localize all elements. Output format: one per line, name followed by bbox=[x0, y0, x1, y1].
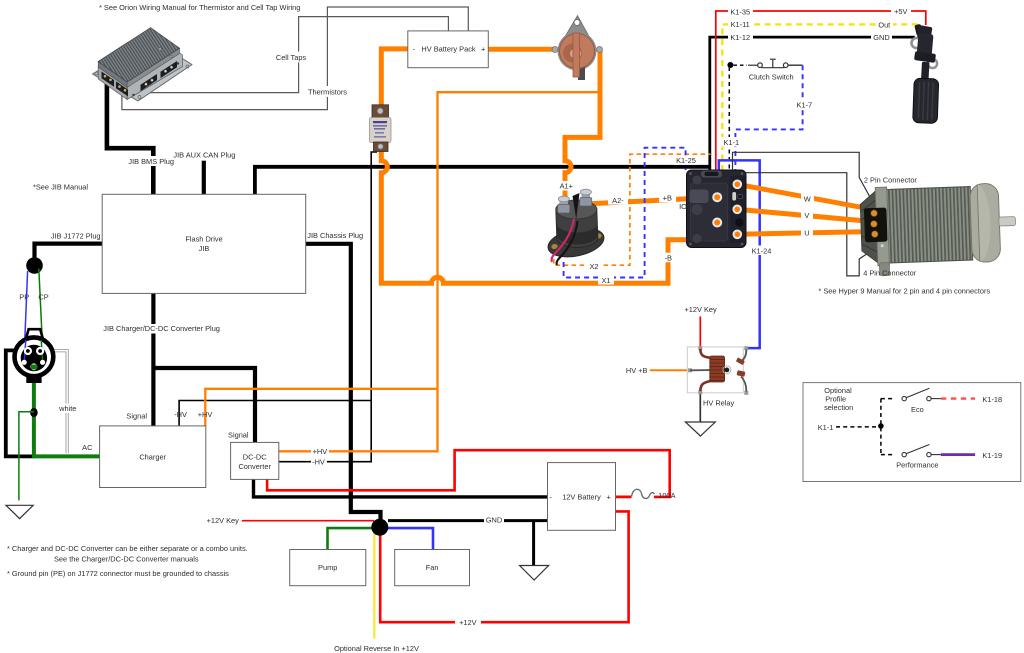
svg-text:GND: GND bbox=[873, 33, 889, 42]
svg-text:JIB: JIB bbox=[199, 244, 210, 253]
switch Eco bbox=[906, 388, 929, 397]
svg-text:JIB Charger/DC-DC Converter Pl: JIB Charger/DC-DC Converter Plug bbox=[103, 324, 220, 333]
svg-text:AC: AC bbox=[82, 443, 93, 452]
wire charger signal from JIB charger plug bbox=[151, 293, 155, 426]
flange bbox=[93, 39, 193, 102]
wire AC neutral (white) from J1772 N pin bbox=[45, 351, 67, 453]
svg-text:+: + bbox=[607, 493, 611, 502]
terminal -B bbox=[713, 219, 721, 227]
label JIB BMS Plug bbox=[129, 156, 174, 166]
wire motor phase W (thick orange) bbox=[737, 184, 875, 210]
terminal A2 bbox=[582, 192, 591, 200]
svg-text:-HV: -HV bbox=[312, 458, 325, 467]
label W bbox=[801, 194, 814, 204]
Pump box bbox=[290, 550, 366, 586]
heatsink fin sides (right) bbox=[127, 48, 179, 87]
svg-text:HV Battery Pack: HV Battery Pack bbox=[421, 45, 476, 54]
wire PP (blue) bbox=[24, 271, 27, 352]
svg-text:K1-1: K1-1 bbox=[723, 138, 739, 147]
svg-text:100A: 100A bbox=[658, 491, 675, 500]
wire DC-DC +HV riser (thin orange) with label gap bbox=[279, 92, 600, 451]
label +5V bbox=[891, 6, 911, 16]
svg-text:HV Relay: HV Relay bbox=[703, 399, 735, 408]
relay coil bbox=[710, 356, 725, 382]
svg-text:-HV: -HV bbox=[174, 410, 187, 419]
label JIB AUX CAN Plug bbox=[175, 150, 234, 160]
svg-text:Signal: Signal bbox=[228, 430, 249, 439]
svg-text:K1-35: K1-35 bbox=[730, 7, 750, 16]
svg-text:Optional: Optional bbox=[824, 386, 852, 395]
wire K1-7 blue dashed bbox=[735, 65, 802, 171]
wire HV battery minus to fuse to -B of controller (thick orange) bbox=[381, 49, 717, 283]
svg-text:selection: selection bbox=[824, 403, 853, 412]
label Out bbox=[877, 20, 893, 30]
HV relay internals bbox=[688, 346, 748, 395]
svg-text:K1-25: K1-25 bbox=[676, 156, 696, 165]
svg-text:*See JIB Manual: *See JIB Manual bbox=[33, 183, 88, 192]
wire coil sensor to contactor A1+ (thick orange) bbox=[565, 51, 600, 199]
wire HV +B orange to relay common bbox=[650, 369, 690, 371]
svg-text:+B: +B bbox=[663, 193, 672, 202]
svg-text:JIB J1772 Plug: JIB J1772 Plug bbox=[51, 232, 101, 241]
svg-text:2 Pin Connector: 2 Pin Connector bbox=[864, 176, 918, 185]
svg-text:Signal: Signal bbox=[126, 412, 147, 421]
clutch switch symbol bbox=[748, 64, 758, 66]
node J1772 cable junction dot bbox=[26, 257, 43, 274]
wire battery plus to fuse 100A red bbox=[616, 495, 632, 498]
label white bbox=[58, 404, 78, 414]
fuse 100A squiggle bbox=[632, 489, 655, 498]
svg-text:K1-1: K1-1 bbox=[818, 423, 834, 432]
wire DC-DC signal branch bbox=[153, 368, 255, 442]
label A1+ bbox=[557, 181, 576, 191]
wire JIB chassis plug to ground junction bbox=[306, 244, 381, 523]
label U bbox=[801, 228, 813, 238]
svg-text:* See Orion Wiring Manual for: * See Orion Wiring Manual for Thermistor… bbox=[99, 3, 300, 12]
svg-text:JIB AUX CAN Plug: JIB AUX CAN Plug bbox=[173, 151, 235, 160]
wire +12V Key red to junction bbox=[242, 520, 374, 522]
controller U2 (motor controller) bbox=[687, 170, 747, 248]
svg-text:+: + bbox=[481, 45, 485, 54]
svg-text:A1+: A1+ bbox=[560, 182, 573, 191]
wire HV battery plus to coil sensor (thick orange) bbox=[488, 47, 554, 52]
Charger box bbox=[100, 426, 206, 488]
svg-text:PP: PP bbox=[19, 293, 29, 302]
svg-text:X1: X1 bbox=[601, 276, 610, 285]
wire contactor A2- to controller +B (thick orange) bbox=[586, 197, 717, 204]
svg-text:Flash Drive: Flash Drive bbox=[185, 235, 222, 244]
Optional Profile selection box bbox=[803, 383, 1021, 482]
wire K1-35 +5V red to throttle bbox=[716, 11, 926, 171]
label +HV dcdc bbox=[311, 447, 329, 456]
label +B bbox=[659, 193, 676, 203]
contactor K1 (main contactor) bbox=[545, 189, 606, 265]
svg-text:V: V bbox=[804, 211, 809, 220]
DC-DC Converter box bbox=[231, 442, 279, 479]
svg-text:Performance: Performance bbox=[896, 461, 938, 470]
heatsink top bbox=[98, 28, 179, 82]
wire J1772 plug cable to JIB bbox=[35, 244, 103, 258]
wire fan blue bbox=[386, 528, 433, 549]
wire motor phase V (thick orange) bbox=[737, 209, 874, 222]
svg-text:Thermistors: Thermistors bbox=[308, 88, 347, 97]
svg-text:K1-11: K1-11 bbox=[731, 20, 750, 29]
svg-text:W: W bbox=[804, 194, 811, 203]
profile selection K1-1 dashed wiring bbox=[836, 426, 878, 428]
svg-text:Fan: Fan bbox=[426, 563, 439, 572]
svg-text:JIB BMS Plug: JIB BMS Plug bbox=[128, 157, 174, 166]
Flash Drive JIB box bbox=[102, 194, 306, 293]
svg-text:+12V Key: +12V Key bbox=[207, 516, 240, 525]
black coil wire bbox=[557, 221, 578, 265]
wire 2 pin connector callout bbox=[733, 152, 876, 208]
wire K1-11 Out yellow dashed to throttle bbox=[722, 24, 918, 171]
svg-text:+12V Key: +12V Key bbox=[684, 305, 717, 314]
svg-text:+12V: +12V bbox=[459, 618, 477, 627]
wire K1-18 red dashed bbox=[941, 397, 975, 399]
wire motor phase U (thick orange) bbox=[737, 232, 875, 235]
wire GND from junction to battery minus bbox=[388, 519, 548, 522]
J1772 connector bbox=[15, 329, 54, 383]
label -B bbox=[661, 253, 676, 263]
svg-text:A2-: A2- bbox=[612, 196, 624, 205]
wire DC-DC 12V minus to battery (thick black) bbox=[254, 479, 548, 497]
label A2- bbox=[608, 195, 628, 205]
terminal V bbox=[733, 206, 741, 214]
terminal U bbox=[734, 231, 742, 239]
terminal W bbox=[734, 181, 742, 189]
wire K1-1 black dashed from clutch switch bbox=[728, 67, 730, 171]
node main 12V junction dot bbox=[371, 519, 388, 536]
wire DC-DC 12V plus red to battery plus bbox=[267, 450, 670, 497]
svg-text:IO: IO bbox=[679, 202, 687, 211]
wire HV relay coil to ground bbox=[699, 393, 701, 422]
label K1-11 bbox=[728, 20, 753, 30]
svg-text:U: U bbox=[804, 228, 809, 237]
svg-text:K1-7: K1-7 bbox=[796, 101, 812, 110]
ground symbol below 12V battery bbox=[520, 566, 549, 581]
svg-text:CP: CP bbox=[38, 293, 48, 302]
terminal +B bbox=[713, 193, 721, 201]
node clutch switch junction dot bbox=[727, 62, 733, 68]
node profile junction dot bbox=[878, 423, 884, 429]
svg-text:Cell Taps: Cell Taps bbox=[276, 53, 307, 62]
Fan box bbox=[395, 550, 470, 586]
label X1 bbox=[598, 275, 614, 285]
svg-text:+5V: +5V bbox=[894, 7, 907, 16]
svg-text:* Charger and DC-DC Converter: * Charger and DC-DC Converter can be eit… bbox=[7, 544, 248, 553]
fuse F1 (HV fuse) bbox=[370, 105, 392, 152]
label Thermistors bbox=[307, 86, 348, 97]
svg-text:HV +B: HV +B bbox=[626, 366, 648, 375]
svg-text:K1-18: K1-18 bbox=[982, 395, 1002, 404]
label Cell Taps bbox=[275, 52, 307, 63]
wire +12V Key red to HV relay coil bbox=[699, 316, 701, 347]
label K1-35 bbox=[728, 7, 753, 17]
label Optional Reverse In +12V bbox=[333, 644, 415, 653]
wire green to chassis ground bbox=[19, 412, 34, 501]
svg-text:* See Hyper 9 Manual for 2 pin: * See Hyper 9 Manual for 2 pin and 4 pin… bbox=[818, 286, 990, 295]
ground symbol below J1772 bbox=[6, 505, 33, 518]
svg-text:12V Battery: 12V Battery bbox=[562, 493, 601, 502]
svg-text:See the Charger/DC-DC Converte: See the Charger/DC-DC Converter manuals bbox=[54, 555, 199, 564]
pink coil wire bbox=[552, 219, 574, 262]
label GND bottom bbox=[484, 515, 504, 525]
wire thermistors (BMS to HV battery) bbox=[122, 7, 468, 110]
svg-text:+HV: +HV bbox=[198, 410, 213, 419]
svg-text:DC-DC: DC-DC bbox=[243, 452, 267, 461]
svg-text:K1-24: K1-24 bbox=[752, 246, 772, 255]
label K1-24 bbox=[749, 246, 774, 256]
label -HV dcdc bbox=[311, 458, 327, 467]
wire AC hot (black) from J1772 L1 pin to charger bbox=[6, 350, 34, 456]
heatsink fin ends (left) bbox=[98, 62, 127, 88]
wire fuse bottom to -HV net (thin black) bbox=[279, 152, 377, 462]
ground symbol below HV relay bbox=[685, 422, 715, 436]
label JIB Charger/DC-DC Converter Plug bbox=[107, 324, 217, 334]
motor M1 (Hyper 9) bbox=[860, 183, 1017, 277]
body front-right face bbox=[127, 53, 182, 100]
motor terminal V bbox=[870, 220, 877, 227]
svg-text:GND: GND bbox=[486, 516, 502, 525]
wire K1-24 blue to HV relay bbox=[719, 160, 760, 348]
wire BMS to JIB BMS plug bbox=[107, 78, 153, 194]
svg-text:4 Pin Connector: 4 Pin Connector bbox=[863, 268, 917, 277]
svg-text:white: white bbox=[58, 404, 76, 413]
switch Performance bbox=[906, 445, 929, 454]
label GND throttle bbox=[871, 32, 892, 42]
wire charger +HV (thin orange) bbox=[205, 389, 437, 426]
terminal A1 bbox=[560, 199, 569, 207]
label K1-7 bbox=[793, 100, 816, 110]
svg-text:Optional Reverse In +12V: Optional Reverse In +12V bbox=[334, 644, 419, 653]
svg-text:Pump: Pump bbox=[318, 563, 337, 572]
svg-text:Clutch Switch: Clutch Switch bbox=[749, 72, 794, 81]
svg-text:* Ground pin (PE) on J1772 con: * Ground pin (PE) on J1772 connector mus… bbox=[7, 569, 229, 578]
relay common lever bbox=[690, 369, 727, 371]
svg-text:K1-12: K1-12 bbox=[730, 33, 750, 42]
svg-text:JIB Chassis Plug: JIB Chassis Plug bbox=[307, 231, 363, 240]
wire black HV bus (JIB top to controller) bbox=[255, 167, 711, 195]
label K1-1 bbox=[721, 137, 742, 147]
motor terminal U bbox=[871, 231, 878, 238]
relay coil leads bbox=[700, 349, 710, 358]
label X2 bbox=[586, 261, 602, 271]
motor terminal W bbox=[870, 210, 877, 217]
wire cell taps (BMS to HV battery) bbox=[151, 17, 449, 93]
connector slots bbox=[102, 72, 115, 87]
wire clutch switch dashed lead bbox=[734, 64, 748, 66]
wire 4 pin connector callout bbox=[746, 173, 873, 276]
wire K1-19 purple bbox=[941, 453, 975, 456]
wire JIB AUX CAN plug stub bbox=[202, 161, 206, 195]
wire pump green bbox=[328, 528, 374, 549]
wire +12V red loop battery to junction bbox=[380, 511, 628, 622]
HV Relay outline box bbox=[687, 347, 743, 393]
wire contactor coil X1 blue dashed to controller bbox=[564, 148, 686, 278]
wire K1-12 GND black to throttle bbox=[710, 37, 915, 171]
wire AC green from J1772 PE pin to charger bbox=[34, 367, 100, 457]
svg-text:Out: Out bbox=[878, 20, 890, 29]
node green junction dot bbox=[30, 408, 38, 417]
svg-text:+HV: +HV bbox=[313, 447, 328, 456]
wire optional reverse yellow bbox=[373, 530, 375, 639]
svg-text:X2: X2 bbox=[589, 262, 598, 271]
svg-text:K1-19: K1-19 bbox=[982, 451, 1002, 460]
12V Battery box bbox=[548, 463, 616, 531]
relay pin pads bbox=[698, 346, 702, 350]
wire CP (green) bbox=[39, 269, 43, 353]
wire contactor coil X2 orange dashed to K1-25 bbox=[554, 154, 711, 265]
relay armature contacts bbox=[741, 350, 746, 362]
svg-text:Converter: Converter bbox=[238, 462, 271, 471]
HV Battery Pack box bbox=[408, 31, 489, 68]
wire charger -HV (thin black) bbox=[179, 401, 371, 426]
BMS U1 (Orion BMS module) bbox=[93, 28, 193, 101]
label V bbox=[801, 211, 813, 221]
svg-text:-B: -B bbox=[665, 254, 672, 263]
svg-text:Eco: Eco bbox=[911, 405, 924, 414]
wire clutch switch to K1-7 solid bbox=[788, 64, 803, 66]
wire GND branch to chassis ground bbox=[532, 521, 535, 566]
body front-left face bbox=[98, 67, 127, 100]
label K1-25 bbox=[674, 156, 698, 165]
throttle pedal bbox=[912, 24, 939, 124]
svg-text:Charger: Charger bbox=[139, 452, 166, 461]
coil sensor (orange cylindrical device) bbox=[552, 16, 603, 81]
label +12V bottom bbox=[455, 618, 481, 628]
label K1-12 bbox=[728, 32, 753, 42]
